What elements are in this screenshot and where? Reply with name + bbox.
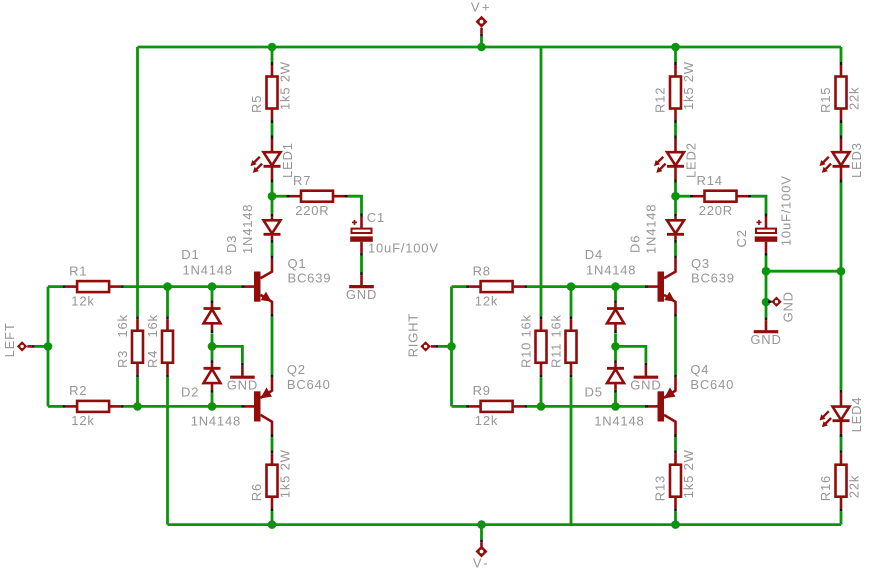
svg-text:R7: R7 [293, 173, 311, 188]
svg-text:V+: V+ [471, 0, 492, 14]
svg-text:D5: D5 [585, 385, 603, 400]
transistor Q1 [242, 256, 332, 317]
node [268, 520, 277, 529]
wire [614, 287, 617, 301]
node [671, 192, 680, 201]
svg-text:R15: R15 [818, 87, 833, 113]
svg-text:12k: 12k [71, 293, 94, 308]
svg-text:1k5 2W: 1k5 2W [278, 61, 293, 110]
svg-text:1N4148: 1N4148 [191, 414, 241, 429]
svg-text:1N4148: 1N4148 [183, 262, 233, 277]
svg-text:R13: R13 [653, 475, 668, 501]
svg-text:R9: R9 [473, 383, 491, 398]
wire [271, 123, 274, 136]
svg-text:LED1: LED1 [280, 142, 295, 178]
svg-text:RIGHT: RIGHT [406, 313, 421, 357]
node C2 out [762, 267, 771, 276]
svg-text:BC639: BC639 [288, 270, 332, 285]
svg-text:16k: 16k [519, 314, 534, 337]
node V- rail [477, 520, 486, 529]
wire [840, 435, 843, 450]
wire [480, 525, 483, 540]
svg-text:C2: C2 [734, 229, 749, 247]
transistor Q4 [645, 362, 734, 437]
wire [166, 287, 169, 317]
LED LED4 [820, 390, 865, 437]
node [671, 43, 680, 52]
svg-text:Q1: Q1 [288, 256, 307, 271]
wire [48, 405, 63, 408]
top rail V+ [138, 46, 842, 49]
wire [765, 256, 768, 271]
svg-text:16k: 16k [145, 314, 160, 337]
resistor R7 [287, 173, 348, 218]
wire [271, 196, 274, 214]
wire [674, 183, 677, 197]
wire [438, 345, 451, 348]
svg-text:BC640: BC640 [690, 377, 734, 392]
wire [480, 37, 483, 47]
diode D6 [667, 214, 684, 243]
node [208, 402, 217, 411]
svg-text:R14: R14 [697, 173, 723, 188]
wire [674, 123, 677, 136]
wire [570, 377, 573, 524]
bottom rail V- [168, 523, 842, 526]
wire [211, 333, 214, 346]
resistor R14 [690, 173, 751, 218]
wire [614, 346, 617, 360]
wire [271, 437, 274, 450]
svg-text:LEFT: LEFT [2, 322, 17, 357]
LED LED1 [251, 136, 296, 183]
wire [527, 285, 645, 288]
svg-text:V-: V- [473, 556, 490, 571]
transistor Q3 [645, 256, 735, 317]
wire [271, 183, 274, 197]
wire [570, 287, 573, 317]
wire [840, 183, 843, 272]
resistor R10 [519, 314, 547, 377]
svg-text:16k: 16k [549, 314, 564, 337]
node LED col [837, 267, 846, 276]
wire [540, 47, 543, 316]
svg-text:C1: C1 [367, 210, 385, 225]
wire [527, 405, 645, 408]
supply GND [768, 291, 796, 322]
wire [674, 196, 677, 214]
node [567, 282, 576, 291]
resistor R12 [653, 61, 697, 123]
wire [614, 333, 617, 346]
svg-text:Q4: Q4 [690, 362, 709, 377]
LED LED2 [654, 136, 699, 183]
svg-text:R12: R12 [653, 87, 668, 113]
svg-text:R5: R5 [249, 95, 264, 113]
svg-text:1N4148: 1N4148 [644, 204, 659, 254]
svg-text:BC639: BC639 [691, 270, 735, 285]
wire [124, 405, 242, 408]
svg-text:D1: D1 [181, 247, 199, 262]
svg-text:R3: R3 [115, 350, 130, 368]
svg-text:10uF/100V: 10uF/100V [368, 240, 439, 255]
diode D5 [607, 360, 624, 393]
svg-text:R4: R4 [145, 350, 160, 368]
svg-text:GND: GND [227, 378, 258, 393]
diode D3 [264, 214, 281, 243]
svg-text:1k5 2W: 1k5 2W [681, 449, 696, 498]
ground [750, 317, 781, 347]
svg-text:D6: D6 [628, 235, 643, 253]
pin LEFT [2, 322, 35, 357]
resistor R5 [249, 61, 293, 123]
capacitor C1 [350, 210, 439, 256]
wire [47, 287, 50, 407]
node GND node [762, 298, 771, 307]
wire [751, 196, 766, 213]
wire [674, 317, 677, 375]
svg-text:220R: 220R [295, 203, 329, 218]
wire [452, 285, 467, 288]
diode D4 [607, 300, 624, 333]
resistor R15 [818, 62, 862, 123]
svg-text:1N4148: 1N4148 [586, 262, 636, 277]
svg-text:1N4148: 1N4148 [594, 414, 644, 429]
LED LED3 [820, 136, 865, 183]
wire [271, 317, 274, 375]
wire [765, 302, 768, 317]
resistor R8 [466, 263, 527, 308]
wire [540, 377, 543, 406]
resistor R13 [653, 449, 697, 511]
wire [124, 285, 242, 288]
node [268, 43, 277, 52]
svg-text:GND: GND [750, 332, 781, 347]
diode D2 [204, 360, 221, 393]
pin RIGHT [406, 313, 439, 357]
node V+ rail [477, 43, 486, 52]
supply V+ [471, 0, 492, 37]
wire [840, 47, 843, 62]
wire [674, 47, 677, 62]
wire [674, 437, 677, 450]
node [537, 402, 546, 411]
wire [452, 405, 467, 408]
svg-text:1k5 2W: 1k5 2W [278, 449, 293, 498]
svg-text:LED4: LED4 [849, 397, 864, 433]
node [208, 342, 217, 351]
wire [271, 243, 274, 256]
svg-text:1N4148: 1N4148 [240, 204, 255, 254]
wire [211, 393, 214, 407]
svg-text:R1: R1 [69, 263, 87, 278]
svg-text:1k5 2W: 1k5 2W [681, 61, 696, 110]
diode D1 [204, 300, 221, 333]
svg-text:GND: GND [781, 291, 796, 322]
svg-text:12k: 12k [475, 413, 498, 428]
svg-text:220R: 220R [699, 203, 733, 218]
svg-text:22k: 22k [847, 475, 862, 498]
svg-text:16k: 16k [115, 314, 130, 337]
wire [48, 285, 63, 288]
node [133, 402, 142, 411]
capacitor C2 [734, 175, 794, 256]
resistor R9 [466, 383, 527, 428]
ground [346, 272, 377, 302]
wire [35, 345, 48, 348]
resistor R2 [63, 383, 124, 428]
svg-text:LED3: LED3 [849, 142, 864, 178]
transistor Q2 [242, 362, 331, 437]
wire [840, 271, 843, 390]
svg-text:D4: D4 [585, 247, 603, 262]
wire [840, 511, 843, 524]
wire [136, 47, 139, 316]
wire [212, 346, 242, 362]
resistor R1 [63, 263, 124, 308]
node [268, 192, 277, 201]
svg-text:10uF/100V: 10uF/100V [779, 175, 794, 246]
svg-text:Q3: Q3 [691, 256, 710, 271]
wire [360, 256, 363, 273]
node [208, 282, 217, 291]
node [44, 342, 53, 351]
ground [630, 363, 661, 393]
wire [616, 346, 646, 362]
svg-text:D2: D2 [181, 385, 199, 400]
wire [136, 377, 139, 406]
wire [676, 195, 691, 198]
resistor R16 [818, 450, 862, 511]
node [611, 402, 620, 411]
svg-text:R16: R16 [818, 475, 833, 501]
wire [766, 270, 841, 273]
svg-text:22k: 22k [847, 87, 862, 110]
wire [614, 393, 617, 407]
resistor R3 [115, 314, 143, 377]
wire [211, 287, 214, 301]
node [611, 342, 620, 351]
wire [272, 195, 287, 198]
svg-text:GND: GND [630, 378, 661, 393]
svg-text:Q2: Q2 [287, 362, 306, 377]
svg-text:LED2: LED2 [684, 142, 699, 178]
svg-text:12k: 12k [475, 293, 498, 308]
svg-text:GND: GND [346, 287, 377, 302]
resistor R4 [145, 314, 173, 377]
wire [271, 47, 274, 62]
wire [840, 123, 843, 136]
svg-text:R8: R8 [473, 263, 491, 278]
svg-text:R2: R2 [69, 383, 87, 398]
svg-text:BC640: BC640 [287, 377, 331, 392]
wire [211, 346, 214, 360]
wire [450, 287, 453, 407]
wire [674, 243, 677, 256]
svg-text:R10: R10 [519, 342, 534, 368]
node [671, 520, 680, 529]
ground [227, 363, 258, 393]
svg-text:R11: R11 [549, 343, 564, 368]
supply V- [473, 539, 490, 570]
resistor R6 [249, 449, 293, 511]
svg-text:12k: 12k [71, 413, 94, 428]
wire [271, 511, 274, 524]
node [611, 282, 620, 291]
svg-text:D3: D3 [224, 235, 239, 253]
wire [348, 196, 362, 213]
wire [166, 377, 169, 524]
wire [765, 271, 768, 302]
svg-text:R6: R6 [249, 483, 264, 501]
resistor R11 [549, 314, 577, 377]
wire [674, 511, 677, 524]
node [163, 282, 172, 291]
node [447, 342, 456, 351]
